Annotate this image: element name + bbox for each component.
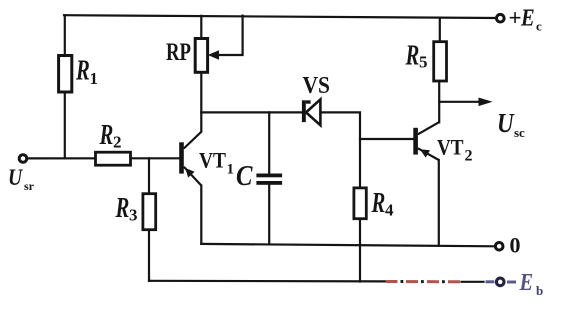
svg-text:VS: VS <box>303 73 331 99</box>
svg-text:VT: VT <box>437 135 464 160</box>
wire VT2 emitter down <box>438 160 440 246</box>
zener diode VS <box>302 99 321 125</box>
svg-text:2: 2 <box>465 148 473 165</box>
svg-text:RP: RP <box>166 39 191 66</box>
wire R3 branch bottom <box>149 230 150 281</box>
wire collector node VT1 <box>201 111 302 113</box>
wire -Eb black dots in dashed section <box>401 280 445 283</box>
svg-text:5: 5 <box>419 53 428 72</box>
svg-text:sc: sc <box>514 125 525 140</box>
svg-text:0: 0 <box>510 233 521 258</box>
svg-text:E: E <box>520 4 535 31</box>
wire -Eb rail black part <box>149 280 385 283</box>
wire VT2 base <box>360 138 413 140</box>
potentiometer RP wiper arrowhead <box>208 50 219 59</box>
svg-text:U: U <box>497 109 515 138</box>
svg-text:C: C <box>236 161 253 192</box>
wire VT1 emitter down <box>200 186 202 244</box>
wire R5 branch top <box>439 18 441 42</box>
svg-text:2: 2 <box>113 133 122 152</box>
wire VS to R4 corner <box>320 112 360 187</box>
svg-text:1: 1 <box>227 162 235 178</box>
terminal -Eb <box>496 278 504 286</box>
resistor R3 <box>143 194 156 230</box>
svg-text:c: c <box>536 19 542 34</box>
wire 0 rail <box>201 244 495 246</box>
wire -Eb blue dashes <box>486 280 517 283</box>
transistor VT2 <box>413 122 439 160</box>
wire RP branch bottom <box>200 72 202 112</box>
wire top rail +Ec <box>64 15 496 18</box>
svg-text:3: 3 <box>129 206 138 225</box>
output arrowhead Usc <box>479 98 493 107</box>
resistor R2 <box>96 152 131 165</box>
resistor R4 <box>354 188 366 219</box>
wire C branch top <box>268 112 270 173</box>
wire RP wiper <box>215 16 243 55</box>
terminal input Usr <box>19 155 27 163</box>
resistor R1 <box>59 56 72 93</box>
svg-text:4: 4 <box>385 201 394 220</box>
svg-text:U: U <box>8 165 24 191</box>
svg-text:sr: sr <box>24 179 35 193</box>
wire input to base <box>27 157 179 159</box>
wire R3 branch top <box>148 158 150 193</box>
svg-text:+: + <box>509 6 522 31</box>
wire -Eb rail black part 2 <box>462 281 484 283</box>
wire R1 branch top <box>64 15 66 56</box>
wire R5 to VT2 collector <box>438 81 440 122</box>
svg-text:R: R <box>75 56 90 87</box>
svg-text:b: b <box>536 283 543 298</box>
wire R1 branch bottom <box>64 92 66 158</box>
wire R4 bottom to -Eb <box>359 219 361 282</box>
svg-text:E: E <box>519 268 534 295</box>
svg-text:R: R <box>371 188 386 219</box>
svg-text:R: R <box>405 41 420 72</box>
potentiometer RP <box>195 39 207 73</box>
transistor VT1 <box>179 112 201 185</box>
svg-text:VT: VT <box>199 148 226 173</box>
resistor R5 <box>434 42 447 81</box>
svg-text:R: R <box>99 120 114 151</box>
wire RP branch top <box>200 16 202 39</box>
wire -Eb red dashed section <box>386 280 461 283</box>
capacitor C plates <box>256 174 282 185</box>
svg-text:R: R <box>115 193 130 224</box>
svg-text:1: 1 <box>90 69 99 88</box>
wire output Usc arrow line <box>439 101 486 103</box>
wire C branch bottom <box>268 185 270 245</box>
terminal +Ec <box>497 14 505 22</box>
terminal 0 <box>495 243 503 251</box>
